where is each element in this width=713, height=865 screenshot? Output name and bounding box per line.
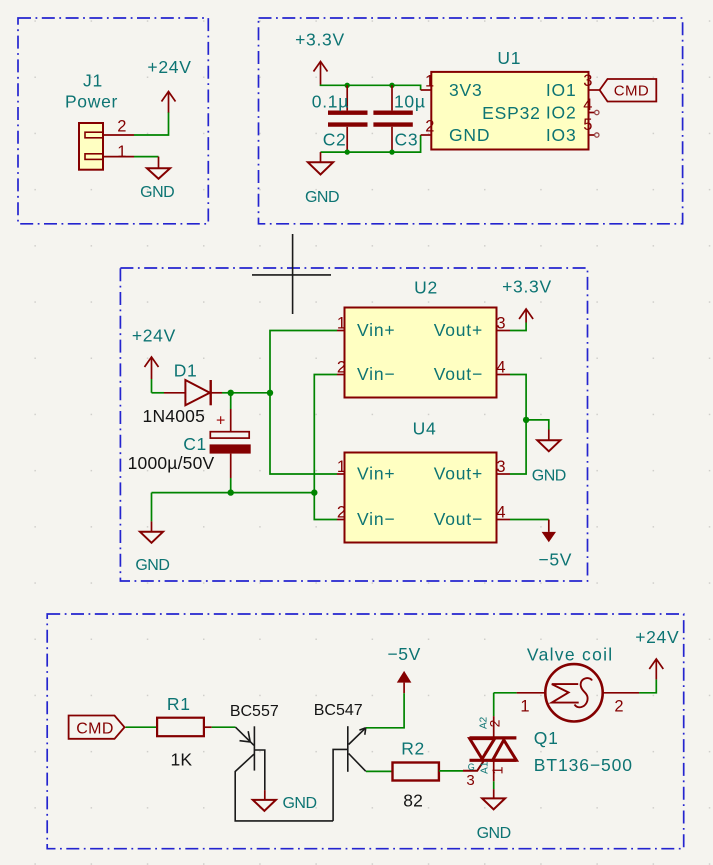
transistor BC557 (PNP, drawn graphics) <box>230 703 333 821</box>
wire U4 Vout- to -5V <box>510 519 549 521</box>
svg-text:1: 1 <box>337 315 346 333</box>
power symbol +24V (input) <box>132 326 176 393</box>
converter U4 body <box>345 419 497 543</box>
wire junction to U4 Vout+ <box>510 420 526 474</box>
diode D1 <box>143 361 231 426</box>
junction output gnd <box>523 417 529 423</box>
svg-text:C2: C2 <box>323 130 347 150</box>
sheet border box 2 (ESP32 section) <box>259 18 683 224</box>
svg-text:3: 3 <box>496 315 505 333</box>
svg-text:1: 1 <box>117 143 126 161</box>
pin 4 Vout- of U2 <box>434 359 510 385</box>
pin 2 of J1 <box>103 118 134 136</box>
wire R1 to BC557 emitter <box>204 726 236 728</box>
svg-text:2: 2 <box>337 359 346 377</box>
svg-text:+24V: +24V <box>635 627 679 647</box>
svg-text:+3.3V: +3.3V <box>502 276 552 296</box>
svg-text:5: 5 <box>583 116 592 134</box>
svg-text:C3: C3 <box>395 130 419 150</box>
svg-text:A1: A1 <box>479 761 490 774</box>
svg-text:3: 3 <box>466 772 475 789</box>
IC U1 body <box>431 48 588 150</box>
triac Q1 <box>463 716 633 789</box>
svg-text:1: 1 <box>520 698 529 716</box>
junction top C2 <box>345 83 350 88</box>
svg-text:2: 2 <box>425 118 434 136</box>
triac A1 pin to ground <box>493 760 495 798</box>
capacitor C1 (polarized) <box>128 393 251 493</box>
svg-text:+24V: +24V <box>132 326 176 346</box>
svg-text:Valve coil: Valve coil <box>527 645 614 665</box>
converter U2 body <box>345 278 497 398</box>
svg-text:IO3: IO3 <box>546 125 577 145</box>
svg-text:CMD: CMD <box>76 721 114 738</box>
svg-text:CMD: CMD <box>614 82 649 99</box>
svg-text:10µ: 10µ <box>394 92 426 112</box>
svg-text:IO1: IO1 <box>546 80 577 100</box>
wire junction to U4 Vin+ <box>270 393 337 474</box>
global label CMD (output) <box>69 716 125 739</box>
svg-text:4: 4 <box>496 359 505 377</box>
svg-text:GND: GND <box>305 189 339 206</box>
wire coil pin1 to triac <box>494 692 517 694</box>
svg-text:1: 1 <box>425 73 434 91</box>
pin 3 Vout+ of U2 <box>434 315 510 341</box>
svg-text:2: 2 <box>117 118 126 136</box>
pin 3 IO1 of U1 <box>546 72 600 100</box>
svg-text:+: + <box>216 413 226 430</box>
pin 2 GND of U1 <box>421 118 491 146</box>
junction C1 bottom <box>228 489 234 495</box>
sheet border box 4 (driver section) <box>47 614 684 849</box>
svg-text:G: G <box>468 762 475 772</box>
power symbol -5V (output) <box>538 520 572 570</box>
wire 3.3V rail top <box>321 85 421 91</box>
sheet border box 3 (DC-DC section) <box>120 268 587 581</box>
pin 4 IO2 of U1 (unconnected) <box>546 96 599 123</box>
ground symbol (box3 right) <box>532 430 566 485</box>
wire BC547 emitter to -5V <box>366 693 404 728</box>
svg-text:BC557: BC557 <box>230 703 279 720</box>
wire U2 Vin- to U4 Vin- <box>314 375 337 520</box>
ground symbol (decoupling) <box>305 152 339 206</box>
wire junction to U2 Vin+ <box>270 331 337 393</box>
junction bottom C2 <box>345 149 350 154</box>
junction D1/C1 <box>228 390 234 396</box>
power symbol +24V <box>147 57 191 113</box>
wire junction to gnd symbol <box>526 420 549 430</box>
svg-text:R2: R2 <box>401 739 425 759</box>
wire BC547 collector to R2 <box>366 770 393 772</box>
svg-text:Vout+: Vout+ <box>434 320 483 340</box>
svg-text:2: 2 <box>337 504 346 522</box>
svg-text:Vout−: Vout− <box>434 364 483 384</box>
svg-text:U2: U2 <box>414 278 438 298</box>
svg-text:+3.3V: +3.3V <box>295 30 345 50</box>
svg-text:3: 3 <box>496 458 505 476</box>
pin 4 Vout- of U4 <box>434 504 510 530</box>
connector J1 body <box>79 123 103 170</box>
wire pin1 to GND <box>134 156 159 158</box>
svg-text:IO2: IO2 <box>546 103 577 123</box>
ground symbol (BC557 base) <box>253 790 317 812</box>
connector J1 reference label <box>65 71 118 112</box>
power symbol +3.3V (decoupling) <box>295 30 345 85</box>
svg-text:GND: GND <box>282 795 316 812</box>
pin 5 IO3 of U1 (unconnected) <box>546 116 599 145</box>
svg-text:Q1: Q1 <box>534 728 559 748</box>
svg-text:Vout−: Vout− <box>434 509 483 529</box>
svg-text:BC547: BC547 <box>314 702 363 719</box>
junction Vin+ <box>267 390 273 396</box>
wire coil pin2 to +24V <box>639 679 656 692</box>
svg-text:C1: C1 <box>183 434 207 454</box>
ground symbol (J1) <box>140 157 174 201</box>
svg-text:BT136−500: BT136−500 <box>534 755 633 775</box>
svg-text:Vin+: Vin+ <box>357 464 395 484</box>
transistor BC547 (NPN, drawn graphics) <box>314 702 366 821</box>
svg-text:3: 3 <box>583 72 592 90</box>
junction top C3 <box>389 83 394 88</box>
svg-text:GND: GND <box>532 467 566 484</box>
pin 1 Vin+ of U4 <box>337 458 396 484</box>
junction bottom C3 <box>389 149 394 154</box>
wire CMD to R1 <box>126 726 158 728</box>
crosshair graphic <box>252 234 331 314</box>
resistor R1 <box>157 694 204 770</box>
power symbol +24V (coil) <box>635 627 679 680</box>
valve coil L1 <box>527 645 614 722</box>
svg-text:1: 1 <box>337 458 346 476</box>
svg-text:R1: R1 <box>167 694 191 714</box>
svg-text:+24V: +24V <box>147 57 191 77</box>
wire R2 to gate <box>439 770 463 772</box>
svg-text:−5V: −5V <box>387 644 421 664</box>
svg-text:82: 82 <box>403 790 423 810</box>
junction Vin- rail <box>311 489 317 495</box>
pin 2 of coil <box>603 693 639 716</box>
resistor R2 <box>393 739 439 811</box>
svg-text:3V3: 3V3 <box>449 80 483 100</box>
svg-text:0.1µ: 0.1µ <box>312 92 349 112</box>
svg-text:1N4005: 1N4005 <box>143 406 206 426</box>
wire to Vin junction <box>231 392 270 394</box>
svg-text:4: 4 <box>496 504 505 522</box>
power symbol -5V (driver) <box>387 644 421 693</box>
power symbol +3.3V (output) <box>502 276 552 330</box>
capacitor C3 <box>373 85 425 152</box>
svg-text:Vin+: Vin+ <box>357 320 395 340</box>
pin 1 of J1 <box>103 143 134 161</box>
svg-text:GND: GND <box>477 825 511 842</box>
svg-text:ESP32: ESP32 <box>482 103 540 123</box>
svg-text:GND: GND <box>140 184 174 201</box>
pin 1 of coil <box>517 693 546 716</box>
svg-text:4: 4 <box>583 96 592 114</box>
svg-text:2: 2 <box>614 698 623 716</box>
svg-text:J1: J1 <box>83 71 103 91</box>
wire pin2 to +24V <box>134 112 169 135</box>
pin 2 Vin- of U4 <box>337 504 396 530</box>
ground symbol (triac) <box>477 798 511 842</box>
pin 1 3V3 of U1 <box>421 73 483 101</box>
svg-text:D1: D1 <box>174 361 198 381</box>
svg-text:Vin−: Vin− <box>357 509 395 529</box>
triac A2 pin wire up to coil <box>493 693 495 738</box>
global label CMD (input) <box>600 79 657 102</box>
svg-text:Power: Power <box>65 92 118 112</box>
svg-text:GND: GND <box>449 125 490 145</box>
sheet border box 1 (power input section) <box>18 18 208 224</box>
svg-text:−5V: −5V <box>538 549 572 569</box>
pin 2 Vin- of U2 <box>337 359 396 385</box>
ground symbol (box3 left) <box>135 493 169 574</box>
wire gnd rail (box3) <box>152 492 315 494</box>
svg-text:1K: 1K <box>170 749 192 769</box>
pin 1 Vin+ of U2 <box>337 315 396 341</box>
capacitor C2 <box>312 85 368 152</box>
svg-text:U1: U1 <box>497 48 521 68</box>
wire gnd rail bottom <box>321 135 421 152</box>
svg-text:Vout+: Vout+ <box>434 464 483 484</box>
svg-text:GND: GND <box>135 557 169 574</box>
pin 3 Vout+ of U4 <box>434 458 510 484</box>
svg-text:U4: U4 <box>413 419 437 439</box>
svg-text:Vin−: Vin− <box>357 364 395 384</box>
svg-text:1000µ/50V: 1000µ/50V <box>128 453 215 473</box>
wire U2 Vout- to gnd junction <box>510 375 526 420</box>
